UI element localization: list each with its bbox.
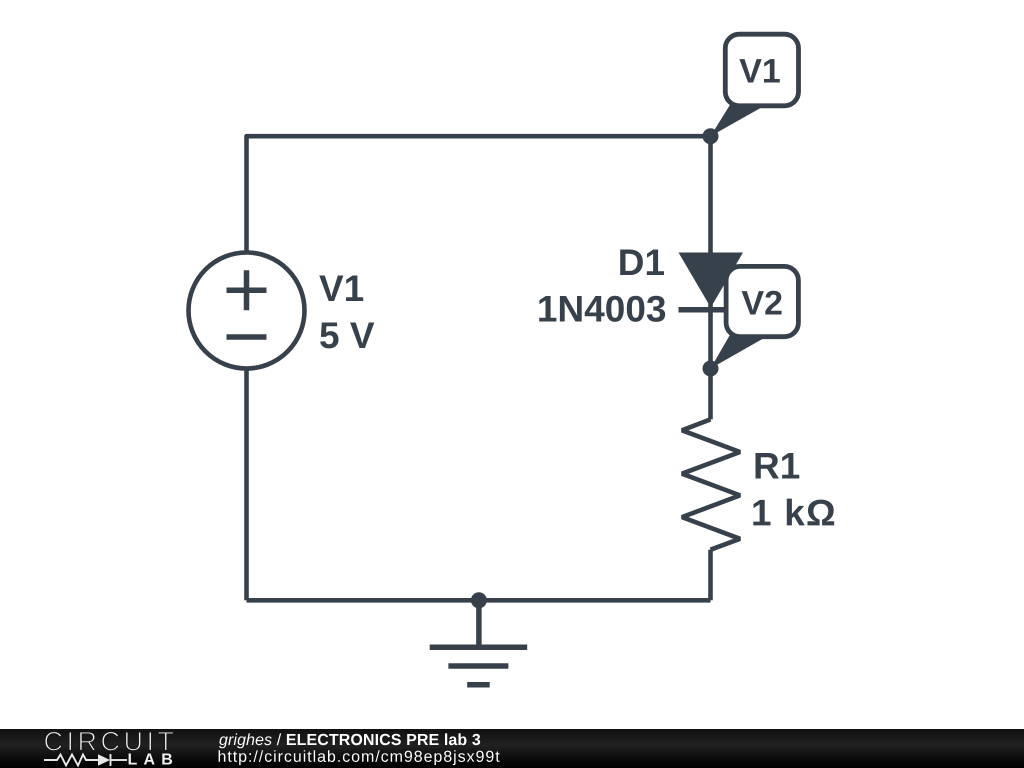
ground symbol (430, 600, 528, 685)
attribution title (bold) (287, 733, 480, 745)
logo wordmark LAB (129, 754, 173, 765)
node V2 junction dot (703, 361, 719, 377)
logo diode glyph (98, 754, 110, 766)
flag V1 pointer (711, 100, 765, 136)
flag V1 box (725, 34, 798, 106)
wire diode to resistor (708, 300, 713, 419)
resistor R1 zigzag (682, 419, 740, 549)
attribution url (219, 750, 500, 765)
flag V2 box (726, 266, 798, 336)
label V1 (319, 276, 363, 302)
label R1 (756, 453, 800, 479)
voltage source V1 circle (189, 253, 305, 369)
value label 1N4003 (539, 296, 665, 322)
label D1 (620, 250, 664, 276)
voltage source plus sign (227, 270, 267, 310)
diode D1 triangle (679, 253, 744, 308)
attribution author (italic) (219, 733, 272, 748)
logo wordmark CIRCUIT (45, 732, 174, 751)
diode D1 cathode bar (679, 307, 744, 313)
footer bar (0, 729, 1024, 768)
wire node V1 to diode (708, 136, 713, 252)
flag V2 text (742, 291, 782, 315)
logo resistor squiggle (44, 754, 127, 766)
ground junction dot (471, 592, 487, 608)
node V1 junction dot (703, 128, 719, 144)
voltage source minus sign (227, 334, 267, 340)
flag V2 pointer (711, 333, 765, 369)
wire resistor to bottom rail (708, 550, 713, 601)
value label 1 kOhm (753, 499, 834, 526)
wire top-left L (left rail + top rail) (247, 136, 711, 600)
wire bottom rail (247, 598, 711, 603)
attribution separator (277, 733, 282, 745)
flag V1 text (739, 59, 779, 82)
value label 5 V (320, 323, 374, 349)
